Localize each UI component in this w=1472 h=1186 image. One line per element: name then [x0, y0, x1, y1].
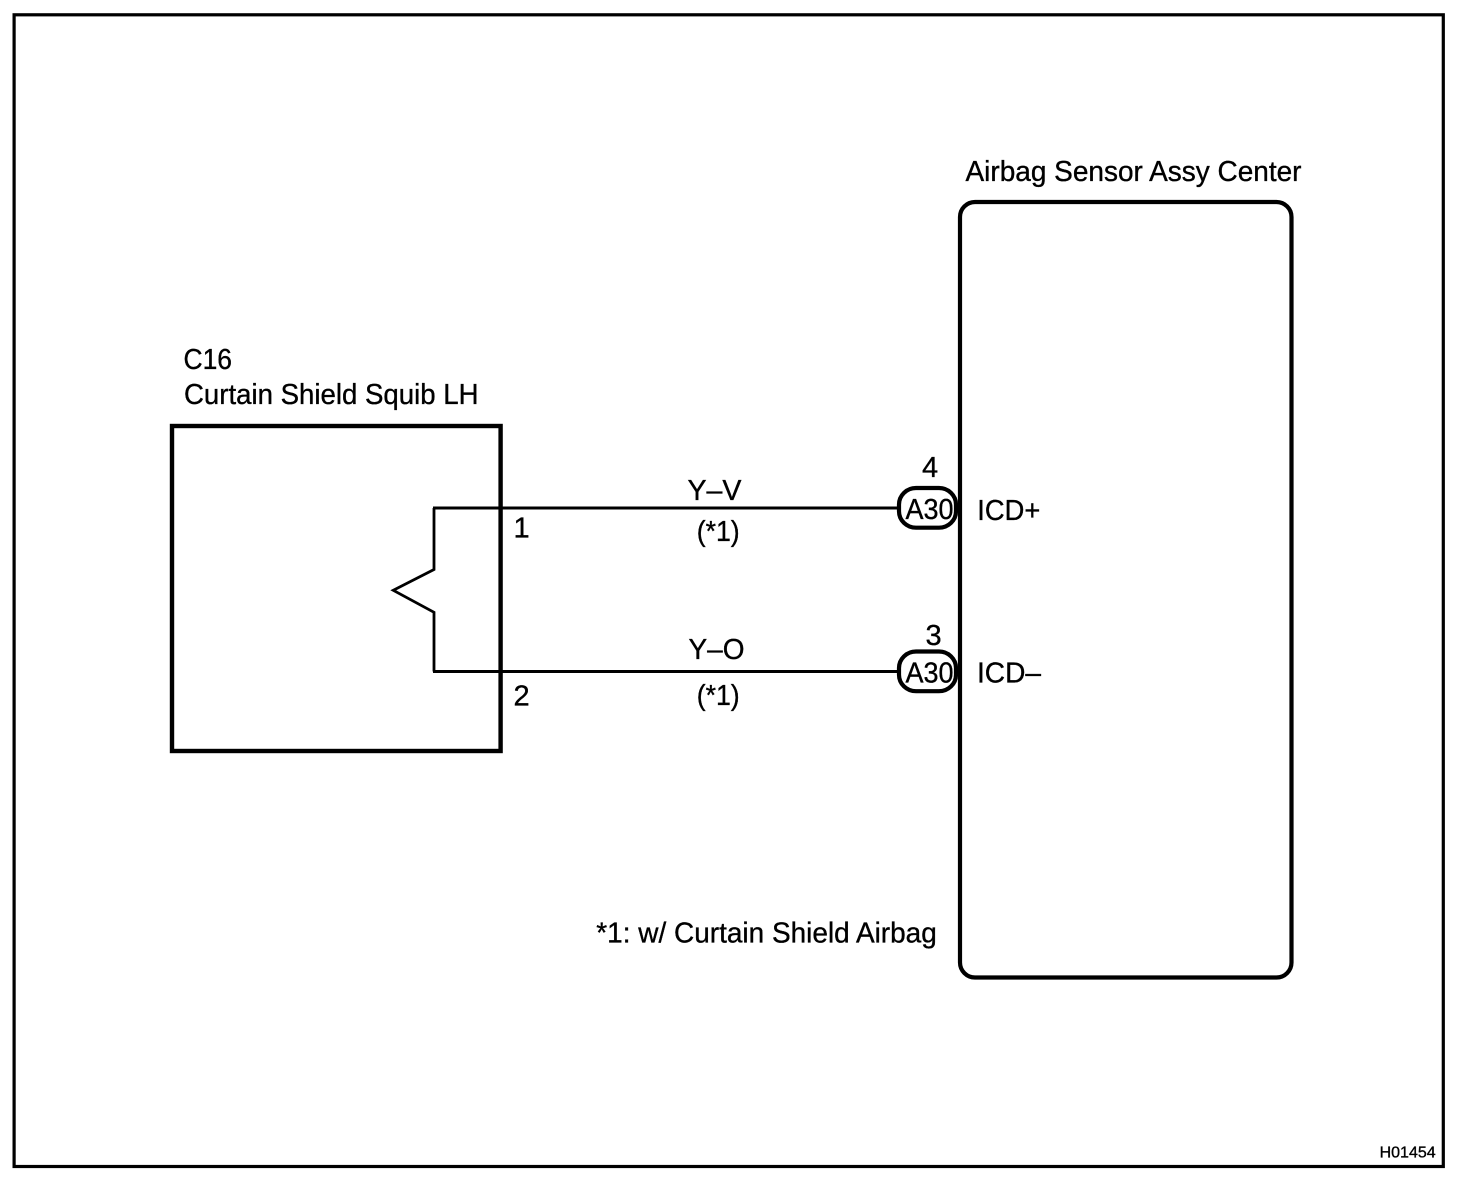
ECU A30 body: Airbag Sensor Assy Center [960, 202, 1292, 978]
wire Y–O (pin 2 to A30 pin 3) [433, 670, 900, 673]
connector code A30 (pin 4) [899, 488, 956, 528]
svg-text:(*1): (*1) [697, 680, 740, 712]
svg-text:A30: A30 [906, 658, 954, 690]
svg-text:1: 1 [514, 513, 530, 545]
svg-text:C16: C16 [184, 344, 233, 376]
svg-text:A30: A30 [906, 494, 954, 526]
svg-text:ICD–: ICD– [977, 658, 1042, 690]
svg-text:4: 4 [922, 452, 938, 484]
svg-text:2: 2 [514, 681, 530, 713]
connector C16 body: Curtain Shield Squib LH [172, 426, 501, 751]
connector C16 label [184, 344, 479, 411]
svg-text:Curtain Shield Squib LH: Curtain Shield Squib LH [184, 379, 479, 411]
svg-text:ICD+: ICD+ [977, 495, 1040, 527]
svg-text:*1: w/ Curtain Shield Airbag: *1: w/ Curtain Shield Airbag [596, 918, 937, 950]
squib element (chevron notch between pin 1 and pin 2) [393, 508, 434, 672]
svg-text:Y–O: Y–O [689, 634, 745, 666]
connector code A30 (pin 3) [899, 652, 956, 692]
svg-text:(*1): (*1) [697, 516, 740, 548]
svg-text:H01454: H01454 [1380, 1145, 1436, 1162]
svg-text:3: 3 [926, 620, 942, 652]
svg-text:Y–V: Y–V [688, 475, 743, 507]
svg-text:Airbag Sensor Assy Center: Airbag Sensor Assy Center [966, 156, 1302, 188]
wire Y–V (pin 1 to A30 pin 4) [433, 507, 899, 510]
